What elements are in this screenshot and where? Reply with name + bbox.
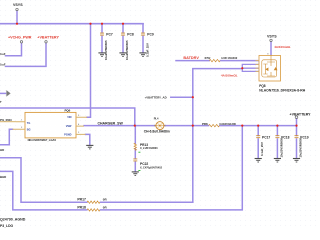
node PC17 junction [257, 125, 259, 127]
capacitor PC22 [133, 159, 137, 161]
node battery loop junction [241, 125, 243, 127]
node PC19 junction [295, 125, 297, 127]
svg-text:BATDRV: BATDRV [183, 56, 199, 60]
wire loop A (PR17 net) [0, 158, 193, 202]
wire BATDRV [176, 60, 209, 62]
wire PC19 drop [296, 126, 298, 159]
capacitor PC8 [121, 33, 125, 35]
wire charger line right of inductor [165, 125, 209, 127]
svg-text:Q24790_AGND: Q24790_AGND [0, 217, 26, 221]
wire VBATTERY_AD stub [171, 96, 193, 98]
svg-text:PC8: PC8 [127, 33, 134, 37]
svg-text:R702: R702 [205, 57, 211, 60]
svg-text:CH-6.8u0.6A68m: CH-6.8u0.6A68m [144, 129, 170, 133]
ground PQ6 PGND [86, 145, 93, 149]
wire battery bus [220, 125, 297, 127]
svg-text:PR8: PR8 [202, 122, 208, 126]
pin stubs left [256, 61, 260, 72]
svg-text:PQ6: PQ6 [65, 108, 71, 112]
ground PC19 [293, 159, 300, 163]
ground PC7 [98, 53, 105, 57]
wire PC9 drop [142, 24, 144, 53]
resistor PN_0603 lead-in (left edge) [0, 121, 16, 123]
transistor PQ8 [256, 53, 306, 92]
ground PC17 [255, 159, 262, 163]
ground PC8 [119, 53, 126, 57]
wire PQ8 drain to VSYS [270, 42, 272, 56]
node PC7 junction [101, 23, 103, 25]
svg-text:PQ8: PQ8 [259, 84, 266, 88]
svg-text:X_C470p50V70402: X_C470p50V70402 [140, 166, 163, 169]
node VIN junction [89, 23, 91, 25]
svg-text:0.1uF_25V: 0.1uF_25V [260, 142, 264, 156]
svg-text:P%_0603: P%_0603 [0, 118, 12, 122]
svg-text:TG: TG [27, 122, 31, 125]
node SW/charger junction [134, 125, 136, 127]
wire top VSYS bus [0, 23, 143, 25]
svg-text:+VBATTERY: +VBATTERY [290, 112, 312, 116]
ground PC18 [274, 159, 281, 163]
wire BG [0, 129, 13, 144]
svg-text:PC9: PC9 [147, 33, 154, 37]
node x193 charger junction [192, 125, 194, 127]
svg-text:10u25V5R0805: 10u25V5R0805 [299, 137, 303, 157]
svg-text:+VBATTERY_AD: +VBATTERY_AD [145, 95, 167, 99]
capacitor PC19 [295, 136, 299, 138]
pin stubs [13, 122, 26, 130]
wire VSYS stub [16, 11, 18, 24]
svg-text:X_2.2R1%0603: X_2.2R1%0603 [140, 147, 158, 150]
svg-text:VIN: VIN [67, 116, 71, 119]
svg-text:0.uF: 0.uF [0, 63, 6, 67]
svg-text:NN-CSD87381P_LGA5: NN-CSD87381P_LGA5 [28, 138, 57, 142]
svg-text:BHD: BHD [0, 175, 6, 179]
svg-text:VSYS: VSYS [267, 34, 277, 38]
wire loop B (PR18 net) [0, 126, 242, 210]
capacitor PC9 [141, 33, 145, 35]
wire PC8 drop [122, 24, 124, 53]
op-amp U1 style box: transistor PQ6 [13, 108, 88, 142]
wire gate bracket [242, 64, 258, 71]
svg-text:10u25V5R0805: 10u25V5R0805 [104, 40, 108, 60]
svg-text:PR18: PR18 [77, 205, 86, 209]
wire +VBATTERY flag stub [296, 119, 298, 126]
svg-text:10u25V5R0805: 10u25V5R0805 [125, 40, 129, 60]
capacitor PC18 [275, 136, 279, 138]
wire +VCHG_PWR [6, 43, 22, 56]
svg-text:NLAON7516_DFN3X3A-8-RH: NLAON7516_DFN3X3A-8-RH [259, 89, 306, 93]
svg-text:HD: HD [0, 148, 4, 152]
node VBATTERY_AD junction [192, 96, 194, 98]
svg-text:+VBATTERY: +VBATTERY [37, 35, 59, 39]
svg-text:PR17: PR17 [77, 198, 86, 202]
svg-text:PC17: PC17 [262, 136, 270, 140]
power flag VSYS (top left) [16, 8, 18, 10]
wire +VBATTERY left [6, 43, 47, 66]
wire SW feedback y108 [0, 108, 135, 126]
power flag VSYS (PQ8) [270, 39, 272, 41]
ground PC9 [139, 53, 146, 57]
off-page arrow connector [0, 92, 6, 94]
svg-text:0.01R1%1206: 0.01R1%1206 [219, 122, 236, 126]
wire snubber drop [134, 126, 136, 144]
svg-text:0.1uF_25V: 0.1uF_25V [145, 43, 149, 57]
svg-text:P3_LDO: P3_LDO [0, 224, 14, 228]
svg-text:VSYS: VSYS [13, 3, 23, 7]
resistor PR8 (current sense) [209, 124, 220, 126]
svg-text:PC7: PC7 [106, 33, 113, 37]
ground PC22 [132, 172, 139, 176]
svg-text:CHARGER_SW: CHARGER_SW [98, 122, 124, 126]
svg-text:10u25V5R0805: 10u25V5R0805 [279, 137, 283, 157]
wire PC7 drop [101, 24, 103, 53]
svg-text:PL4: PL4 [154, 117, 159, 121]
node VSYS junction [16, 23, 18, 25]
power flag +VBATTERY (left) [45, 41, 47, 43]
wire charger line left [84, 125, 156, 127]
capacitor PC17 [256, 136, 260, 138]
wire VIN drop [87, 24, 91, 118]
svg-text:BG: BG [27, 129, 31, 132]
power flag +VCHG_PWR [20, 41, 22, 43]
wire PC17 drop [257, 126, 259, 159]
resistor R702 (BATDRV gate) [209, 59, 220, 61]
svg-text:VSW: VSW [66, 125, 72, 128]
svg-text:4A/100mΩL: 4A/100mΩL [221, 74, 238, 78]
capacitor PC7 [100, 33, 104, 35]
svg-text:4.0R 1%0402: 4.0R 1%0402 [221, 56, 238, 60]
svg-text:4A/100mΩL: 4A/100mΩL [274, 45, 291, 49]
svg-text:+VCHG_PWR: +VCHG_PWR [8, 35, 32, 39]
resistor PR13 (snubber, vertical) [134, 143, 136, 150]
resistor PR17 [87, 201, 100, 203]
svg-text:PGND: PGND [64, 134, 71, 137]
wire PGND to ground [86, 134, 90, 145]
wire node vertical x193 [193, 69, 243, 203]
node PC18 junction [276, 125, 278, 127]
node PC8 junction [122, 23, 124, 25]
wire PC18 drop [276, 126, 278, 159]
resistor PR18 [87, 209, 100, 211]
svg-text:0.uF: 0.uF [0, 52, 6, 56]
node gate bracket junction [241, 67, 243, 69]
